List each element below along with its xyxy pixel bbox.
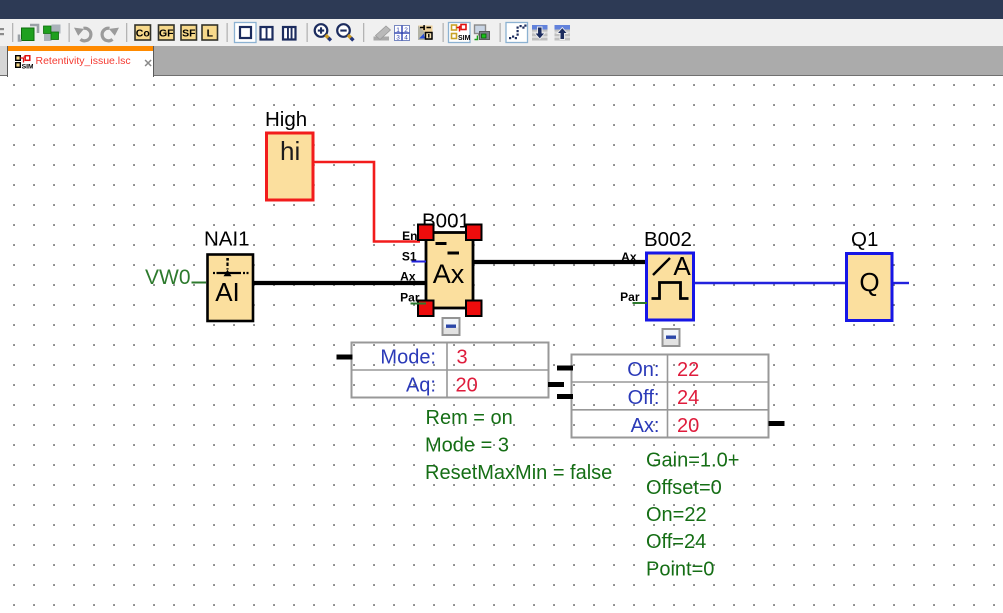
icon two vertical panes (261, 27, 273, 40)
tick input 1 of parameter box B002 (557, 366, 573, 371)
icon undo (74, 28, 91, 41)
tick input of parameter box B001 (337, 355, 353, 360)
svg-text:4: 4 (404, 35, 408, 42)
button SF (181, 25, 197, 40)
svg-text:1: 1 (396, 27, 400, 34)
svg-text:3: 3 (457, 347, 468, 369)
pin stub S1 (blue) (412, 261, 427, 263)
svg-text:22: 22 (677, 359, 699, 381)
minimize button B002 (663, 329, 680, 346)
pin stub Par (green) (411, 303, 427, 305)
svg-text:Co: Co (136, 28, 150, 40)
svg-text:20: 20 (456, 375, 478, 397)
selection handle B001 bottom-right (466, 301, 482, 317)
block hi (analog level High) (267, 133, 314, 200)
tick output of parameter box B002 (769, 421, 785, 426)
svg-text:Gain=1.0+: Gain=1.0+ (646, 450, 739, 472)
svg-text:Mode = 3: Mode = 3 (425, 435, 509, 457)
svg-text:SIM: SIM (458, 35, 471, 42)
svg-text:20: 20 (677, 415, 699, 437)
button single window (selected) (235, 23, 257, 43)
partial icon at left edge (0, 28, 4, 35)
block B001 analog amplifier Ax (426, 233, 473, 309)
minimize button B001 (443, 318, 460, 335)
icon network interface (475, 25, 490, 40)
svg-text:Offset=0: Offset=0 (646, 477, 722, 499)
svg-text:SF: SF (182, 28, 196, 40)
title bar (0, 0, 1003, 19)
svg-text:Off:: Off: (628, 387, 660, 409)
button page down (532, 25, 548, 41)
pin stub Par B002 (green) (633, 302, 648, 304)
parameter box B002 frame (572, 355, 769, 438)
block B002 analog threshold trigger (647, 251, 694, 320)
button probe path (selected) (506, 23, 528, 43)
wire Q1 output stub (blue) (893, 282, 909, 284)
svg-text:Ax: Ax (621, 250, 637, 264)
icon join window (green) (44, 25, 61, 42)
svg-text:Q: Q (859, 267, 879, 297)
icon zoom out (337, 24, 353, 40)
svg-text:A: A (673, 251, 691, 281)
svg-text:hi: hi (280, 136, 300, 166)
svg-text:GF: GF (159, 28, 174, 40)
block Q1 output (847, 254, 893, 321)
icon shrink parameter box (418, 25, 433, 40)
svg-text:Q1: Q1 (851, 228, 878, 251)
document tab bar (0, 46, 1003, 75)
wire B001 out to B002 Ax (black analog) (474, 260, 648, 264)
button page up (555, 25, 571, 41)
svg-text:High: High (265, 108, 307, 131)
svg-text:On=22: On=22 (646, 504, 707, 526)
svg-text:Off=24: Off=24 (646, 531, 706, 553)
selection handle B001 top-right (466, 225, 482, 241)
icon eraser (374, 26, 391, 41)
svg-text:24: 24 (677, 387, 699, 409)
selection handle B001 bottom-left (418, 301, 434, 317)
svg-text:B002: B002 (644, 228, 692, 251)
block NAI1 analog input (208, 255, 254, 322)
svg-text:2: 2 (404, 27, 408, 34)
svg-text:On:: On: (627, 359, 659, 381)
svg-text:VW0: VW0 (145, 266, 191, 289)
svg-text:Ax: Ax (400, 270, 416, 284)
svg-text:3: 3 (396, 35, 400, 42)
tick input 2 of parameter box B002 (557, 394, 573, 399)
svg-text:ResetMaxMin = false: ResetMaxMin = false (425, 462, 612, 484)
toolbar separators (12, 23, 501, 42)
svg-text:Ax: Ax (433, 259, 465, 289)
svg-text:Par: Par (620, 290, 640, 304)
wire NAI1 to B001 Ax (black analog) (254, 281, 426, 285)
svg-text:En: En (402, 229, 417, 243)
svg-text:L: L (207, 28, 214, 40)
svg-text:Par: Par (400, 291, 420, 305)
button simulation SIM (selected) (449, 23, 471, 43)
selection handle B001 top-left (418, 225, 434, 241)
svg-text:Mode:: Mode: (380, 347, 436, 369)
icon split window (green) (19, 25, 38, 41)
wire VW0 to NAI1 (green) (192, 282, 207, 284)
button L (202, 25, 218, 40)
icon three vertical panes (283, 27, 296, 40)
svg-text:Point=0: Point=0 (646, 559, 714, 581)
button Co (135, 25, 151, 40)
parameter box B001 frame (352, 343, 549, 398)
svg-text:AI: AI (215, 277, 240, 307)
icon zoom in (315, 24, 331, 40)
button GF (159, 25, 175, 40)
icon redo (102, 28, 119, 41)
svg-text:NAI1: NAI1 (204, 228, 250, 251)
svg-text:Ax:: Ax: (631, 415, 660, 437)
svg-text:SIM: SIM (22, 64, 33, 69)
wire B002 out to Q1 (blue) (695, 282, 847, 284)
tick output of parameter box B001 (548, 382, 564, 387)
svg-text:Aq:: Aq: (406, 375, 436, 397)
wire hi to B001 En (red) (315, 162, 421, 242)
main toolbar (0, 19, 1003, 46)
icon format grid numbers (395, 26, 410, 42)
svg-text:Rem = on: Rem = on (426, 407, 513, 429)
